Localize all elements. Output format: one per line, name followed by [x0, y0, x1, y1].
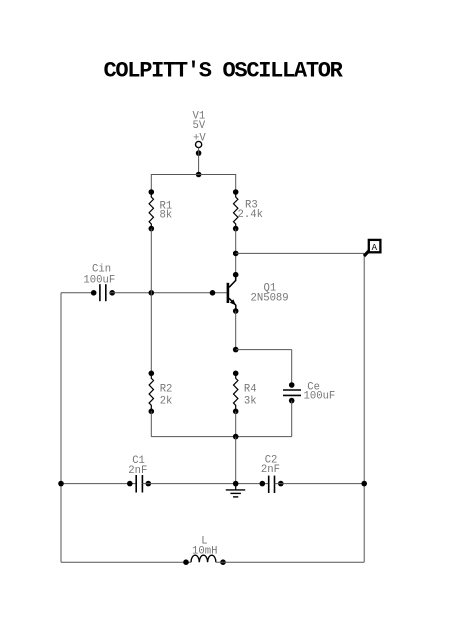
- svg-text:5V: 5V: [193, 120, 206, 132]
- node junction base x left branch: [149, 290, 155, 296]
- node junction bottom mid: [233, 434, 239, 440]
- wire right stub to R3: [235, 174, 237, 192]
- resistor R2: [149, 371, 155, 415]
- label C2 2nF: [261, 454, 280, 476]
- svg-text:2N5089: 2N5089: [251, 292, 289, 304]
- node junction ground row right: [361, 481, 367, 487]
- wire left branch R1 to R2: [150, 229, 152, 374]
- wire left stub to R1: [150, 174, 152, 192]
- node junction top rail: [196, 172, 202, 178]
- wire base left segment: [61, 292, 96, 294]
- svg-text:2k: 2k: [160, 395, 173, 407]
- resistor R4: [233, 371, 239, 415]
- wire mid vertical to ground row: [235, 437, 237, 484]
- svg-text:R4: R4: [244, 384, 257, 396]
- capacitor C1: [127, 475, 151, 493]
- wire emitter down: [235, 311, 237, 350]
- wire Ce bottom lead: [291, 401, 293, 437]
- node junction emitter x Ce: [233, 347, 239, 353]
- wire Ce top lead: [291, 350, 293, 385]
- svg-text:COLPITT'S OSCILLATOR: COLPITT'S OSCILLATOR: [104, 59, 344, 84]
- svg-text:2nF: 2nF: [128, 465, 147, 477]
- wire mid branch R3 to collector: [235, 229, 237, 277]
- node junction to A wire: [233, 251, 239, 257]
- svg-text:100uF: 100uF: [304, 391, 336, 403]
- label Cin 100uF: [83, 264, 115, 287]
- wire ground row left: [61, 483, 136, 485]
- capacitor Ce: [283, 382, 301, 403]
- inductor L: [183, 555, 226, 565]
- svg-text:2nF: 2nF: [261, 464, 280, 476]
- node A tick: [364, 251, 369, 256]
- svg-text:8k: 8k: [160, 209, 173, 221]
- pin dot Q1 base: [210, 290, 216, 296]
- svg-text:R2: R2: [160, 384, 173, 396]
- wire ground row middle: [142, 483, 268, 485]
- label Ce 100uF: [304, 382, 336, 403]
- svg-text:3k: 3k: [244, 395, 257, 407]
- wire ground row right: [275, 483, 365, 485]
- wire left outer vertical: [60, 293, 62, 562]
- svg-text:A: A: [372, 243, 378, 253]
- capacitor C2: [260, 476, 284, 493]
- resistor R3: [233, 189, 239, 231]
- label R2 2k: [160, 384, 173, 408]
- wire right vertical from A: [363, 253, 365, 562]
- node junction ground: [233, 481, 239, 487]
- node junction ground row left: [58, 481, 64, 487]
- wire base right segment: [110, 292, 227, 294]
- label C1 2nF: [128, 455, 147, 477]
- ground symbol: [226, 484, 245, 497]
- resistor R1: [149, 189, 155, 231]
- wire V1 stub: [198, 148, 200, 175]
- label Q1 2N5089: [251, 283, 289, 305]
- wire R2 bottom lead: [150, 411, 152, 436]
- wire bottom mid rail: [151, 436, 291, 438]
- node A box: [369, 240, 381, 252]
- transistor Q1: [227, 272, 239, 314]
- wire bottom right: [216, 561, 364, 563]
- wire top rail: [151, 174, 235, 176]
- label R4 3k: [244, 384, 257, 408]
- wire R4 bottom lead: [235, 411, 237, 436]
- power terminal V1 circle: [196, 141, 202, 147]
- wire to node A: [236, 252, 365, 254]
- pin dot V1: [196, 150, 202, 156]
- wire bottom left: [61, 561, 191, 563]
- capacitor Cin: [91, 284, 115, 301]
- label R1 8k: [160, 200, 173, 221]
- svg-text:2.4k: 2.4k: [238, 209, 263, 221]
- wire emitter junction to Ce: [236, 349, 292, 351]
- label V1 5V +V: [193, 110, 207, 144]
- label R3 2.4k: [238, 200, 263, 221]
- label L 10mH: [192, 536, 217, 558]
